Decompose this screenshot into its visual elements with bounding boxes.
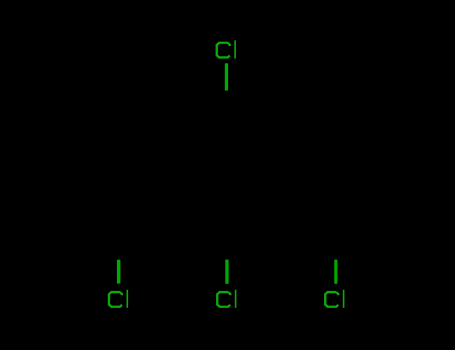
bond C8-Cl (bottom right vertical): [334, 260, 337, 284]
bond C9-Cl (top vertical): [225, 63, 228, 90]
bond C10-Cl (bottom center vertical): [225, 260, 228, 284]
bond C1-Cl (bottom left vertical): [117, 260, 121, 284]
atom label Cl (bottom center, on C10): [217, 290, 236, 308]
atom label Cl (bottom right, on C8): [325, 290, 344, 308]
atom label Cl (top, on C9): [217, 40, 236, 58]
atom label Cl (bottom left, on C1): [109, 290, 128, 308]
